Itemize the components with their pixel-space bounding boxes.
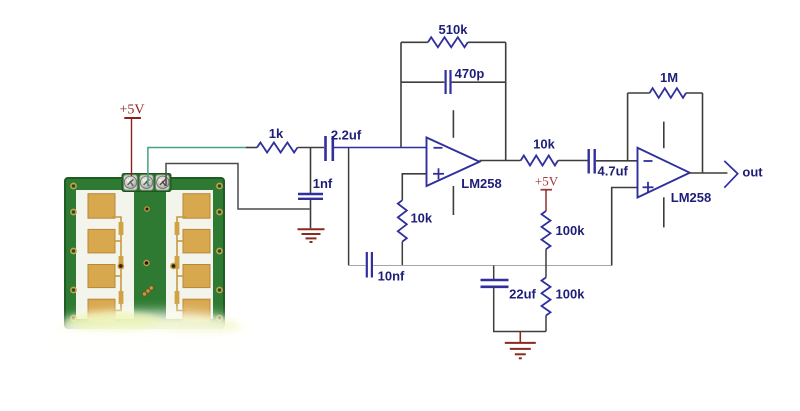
via on right feed: [170, 263, 177, 270]
resistor 1k: [257, 143, 298, 153]
svg-text:LM258: LM258: [461, 176, 501, 191]
bottom glare on PCB photo: [50, 312, 250, 348]
feedback top wire right: [468, 41, 506, 43]
svg-text:out: out: [742, 165, 763, 180]
capacitor 22uf: [481, 280, 509, 287]
svg-text:510k: 510k: [439, 22, 469, 37]
op-amp U1: [427, 138, 480, 187]
resistor 1M: [650, 88, 686, 98]
wire 2.2uf to op-amp U1 inverting input: [334, 147, 427, 149]
svg-text:470p: 470p: [455, 66, 485, 81]
output arrow: [724, 161, 737, 188]
svg-text:100k: 100k: [556, 287, 586, 302]
antenna patches right column: [183, 194, 210, 323]
wire red +5V to 100k: [545, 190, 547, 211]
svg-text:10nf: 10nf: [378, 269, 405, 284]
wire 1k lead left: [246, 147, 257, 149]
U2 power stub bottom: [663, 197, 665, 227]
wire U1 + input: [402, 174, 426, 200]
resistor 100k lower: [542, 277, 551, 315]
op-amp U2: [638, 148, 690, 198]
wire between 100k resistors: [545, 249, 547, 277]
feedback top wire: [401, 41, 428, 43]
capacitor 4.7uf: [589, 149, 595, 174]
svg-text:10k: 10k: [533, 137, 555, 152]
wire red +5V to terminal 1: [131, 118, 133, 176]
svg-text:10k: 10k: [410, 211, 432, 226]
resistor 100k upper: [542, 211, 551, 249]
PCB board: [65, 178, 224, 328]
svg-text:+5V: +5V: [119, 103, 144, 118]
vref bus gray horizontal: [349, 265, 366, 267]
board edge holes: [71, 183, 222, 320]
+5V supply mid: [535, 174, 559, 190]
wire green terminal 2 to 1k: [148, 148, 246, 187]
terminal screw 2: [140, 175, 154, 190]
wire 10k to vref bus: [401, 242, 403, 266]
wire node down to 10nf: [348, 148, 350, 266]
ground under 1nf: [298, 229, 325, 242]
feedback top wire right: [686, 92, 703, 94]
wire vref bus to 22uf: [493, 266, 495, 280]
resistor 10k vertical: [398, 200, 407, 241]
svg-text:22uf: 22uf: [509, 287, 536, 302]
feedback loop U2 right vertical: [702, 93, 704, 173]
antenna patches left column: [88, 194, 115, 323]
feedback loop U2 left vertical: [627, 93, 629, 161]
U1 power stub top: [452, 110, 454, 138]
PCB right antenna panel: [166, 190, 213, 319]
feedback loop U1 left vertical: [400, 42, 402, 147]
wire U1 output: [480, 160, 521, 162]
wire 1k to 2.2uf: [298, 147, 325, 149]
wire vref bus right to U2 + input: [612, 188, 638, 266]
wire 4.7uf to U2 inverting input: [596, 160, 638, 162]
wire U2 output: [690, 172, 728, 174]
terminal screw 3: [156, 175, 170, 190]
feed trace right column: [175, 217, 186, 311]
capacitor 470p: [446, 70, 451, 94]
PCB left antenna panel: [76, 190, 134, 319]
resistor 10k series: [521, 156, 558, 166]
capacitor 10nf: [367, 252, 372, 278]
svg-text:1nf: 1nf: [313, 176, 333, 191]
wire ground stem: [519, 332, 521, 343]
feed trace left column: [112, 217, 123, 311]
resistor 510k: [428, 37, 468, 47]
wire 10k to 4.7uf: [558, 160, 588, 162]
svg-text:100k: 100k: [556, 223, 586, 238]
node junction to 1nf: [310, 148, 312, 195]
svg-text:1k: 1k: [269, 126, 284, 141]
screw terminal block: [122, 174, 171, 192]
capacitor 2.2uf: [326, 136, 333, 161]
U1 power stub bottom: [452, 186, 454, 215]
terminal screw 1: [124, 175, 138, 190]
svg-text:1M: 1M: [660, 70, 678, 85]
U2 power stub top: [663, 122, 665, 149]
wire gray terminal 3 to 1nf ground node: [166, 164, 310, 210]
svg-text:2.2uf: 2.2uf: [331, 128, 362, 143]
via on left feed: [117, 263, 124, 270]
center vias: [144, 206, 150, 212]
ground bottom: [505, 343, 536, 358]
+5V supply left: [119, 103, 144, 119]
wire 1nf to ground: [310, 199, 312, 229]
wire 22uf to bottom rail: [494, 287, 546, 332]
feedback loop U1 right vertical: [505, 42, 507, 160]
wire 100k to bottom rail: [545, 316, 547, 332]
svg-text:+5V: +5V: [535, 174, 559, 189]
svg-text:LM258: LM258: [671, 190, 711, 205]
radar sensor PCB module: [45, 174, 255, 352]
capacitor 1nf: [298, 194, 323, 199]
svg-text:4.7uf: 4.7uf: [598, 164, 629, 179]
feedback middle wire with 470p: [401, 81, 444, 83]
feedback top wire: [628, 92, 650, 94]
